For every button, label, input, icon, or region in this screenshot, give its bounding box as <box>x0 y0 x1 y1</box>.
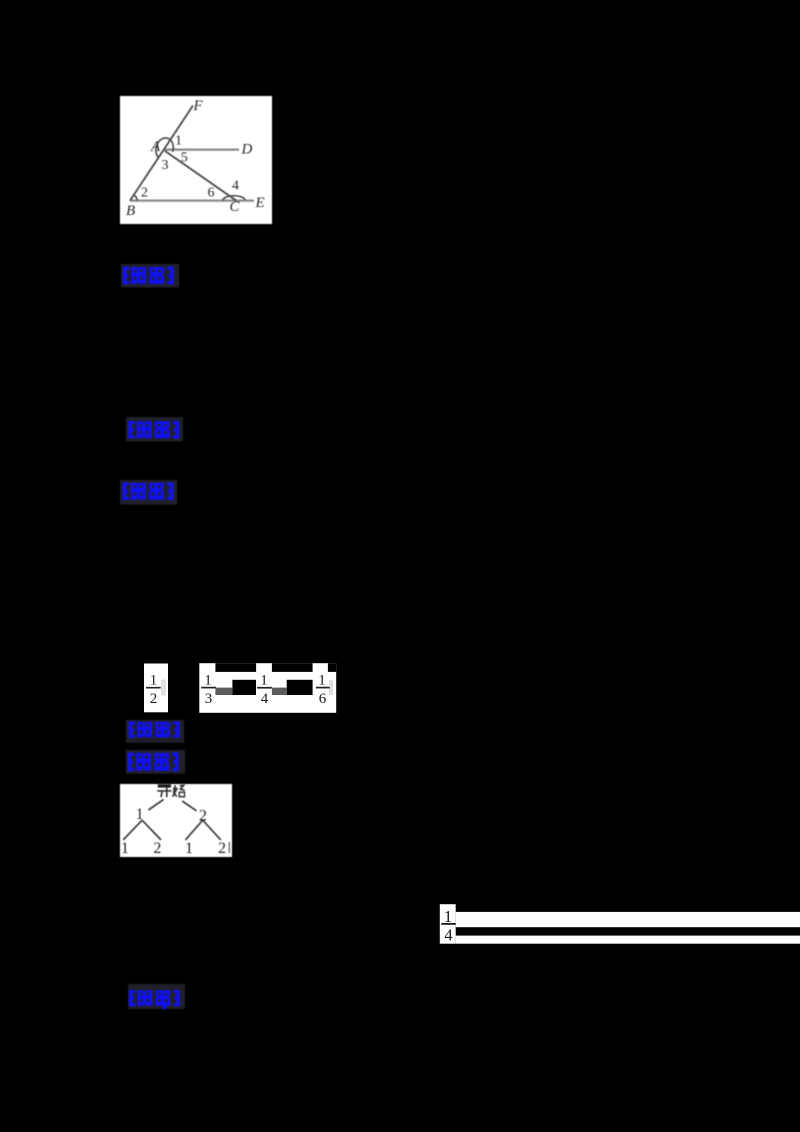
svg-text:A: A <box>150 139 161 155</box>
svg-text:1: 1 <box>318 673 326 689</box>
svg-text:1: 1 <box>260 673 268 689</box>
svg-text:2: 2 <box>150 691 158 707</box>
svg-text:6: 6 <box>208 186 215 201</box>
svg-text:3: 3 <box>162 158 169 173</box>
svg-text:1: 1 <box>204 673 212 689</box>
svg-text:4: 4 <box>261 691 269 707</box>
svg-text:6: 6 <box>319 691 327 707</box>
svg-text:F: F <box>193 98 204 114</box>
svg-text:5: 5 <box>181 151 188 166</box>
svg-text:2: 2 <box>199 807 207 824</box>
svg-text:4: 4 <box>232 179 239 194</box>
svg-text:C: C <box>230 199 241 215</box>
svg-text:1: 1 <box>175 134 182 149</box>
svg-text:2: 2 <box>141 186 148 201</box>
svg-text:1: 1 <box>444 907 452 926</box>
svg-text:1: 1 <box>185 840 193 857</box>
svg-text:2: 2 <box>153 840 161 857</box>
svg-text:1: 1 <box>120 840 128 857</box>
svg-text:E: E <box>255 195 265 211</box>
svg-text:B: B <box>126 203 135 219</box>
svg-text:2: 2 <box>218 840 226 857</box>
svg-text:3: 3 <box>205 691 213 707</box>
svg-text:D: D <box>241 142 253 158</box>
svg-text:1: 1 <box>150 673 158 689</box>
svg-text:1: 1 <box>135 806 143 823</box>
svg-text:4: 4 <box>444 925 452 944</box>
